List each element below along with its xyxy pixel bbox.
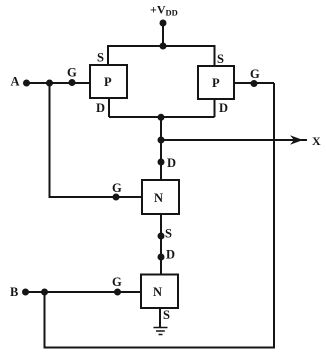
svg-text:D: D	[166, 248, 175, 262]
junction drain rail	[158, 114, 165, 121]
node N2 drain dot	[158, 254, 165, 261]
svg-text:G: G	[112, 275, 122, 289]
svg-text:G: G	[112, 181, 122, 195]
svg-text:G: G	[250, 67, 260, 81]
svg-text:+VDD: +VDD	[150, 3, 178, 18]
svg-text:G: G	[67, 66, 77, 80]
svg-text:B: B	[10, 285, 18, 299]
svg-text:A: A	[11, 75, 20, 89]
wire VDD rail to P sources	[108, 46, 215, 66]
arrowhead X	[290, 135, 303, 145]
node P2 gate dot	[251, 80, 258, 87]
junction VDD rail	[160, 43, 167, 50]
wire P2 gate lead	[234, 82, 274, 84]
wire input B to N2 gate	[26, 291, 142, 293]
wire right side B to P2 gate	[45, 83, 275, 348]
node N2 gate dot	[114, 289, 121, 296]
node N1 source dot	[158, 233, 165, 240]
svg-text:P: P	[212, 76, 220, 90]
svg-text:S: S	[217, 52, 224, 66]
wire P2 drain drop	[214, 99, 216, 117]
svg-text:X: X	[312, 134, 321, 148]
node A terminal dot	[23, 80, 30, 87]
node VDD terminal dot	[160, 20, 167, 27]
svg-text:P: P	[104, 75, 112, 89]
node P1 gate dot	[69, 79, 76, 86]
svg-text:S: S	[165, 227, 172, 241]
wire VDD stub	[162, 23, 164, 46]
junction A	[46, 80, 53, 87]
junction output node	[158, 137, 165, 144]
node B terminal dot	[22, 289, 29, 296]
wire N1 source to N2 drain	[160, 214, 162, 275]
wire input A to P1 gate	[27, 82, 91, 84]
wire drain rail	[109, 116, 215, 118]
node N1 drain dot	[158, 159, 165, 166]
node N1 gate dot	[113, 194, 120, 201]
wire mid column to N1 drain	[160, 117, 162, 180]
ground	[154, 328, 168, 335]
svg-text:S: S	[97, 51, 104, 65]
svg-text:N: N	[154, 191, 163, 205]
wire output X	[161, 139, 307, 141]
svg-text:N: N	[153, 285, 162, 299]
wire A junction to N1 gate	[50, 83, 143, 197]
junction B	[41, 289, 48, 296]
transistor P2 body	[198, 66, 234, 99]
transistor N2 body	[141, 275, 178, 309]
wire P1 drain drop	[108, 98, 110, 117]
wire N2 source to ground	[159, 308, 161, 327]
svg-text:D: D	[219, 101, 228, 115]
svg-text:S: S	[163, 308, 170, 322]
svg-text:D: D	[96, 101, 105, 115]
transistor N1 body	[142, 180, 179, 214]
svg-text:D: D	[167, 156, 176, 170]
transistor P1 body	[90, 65, 127, 98]
